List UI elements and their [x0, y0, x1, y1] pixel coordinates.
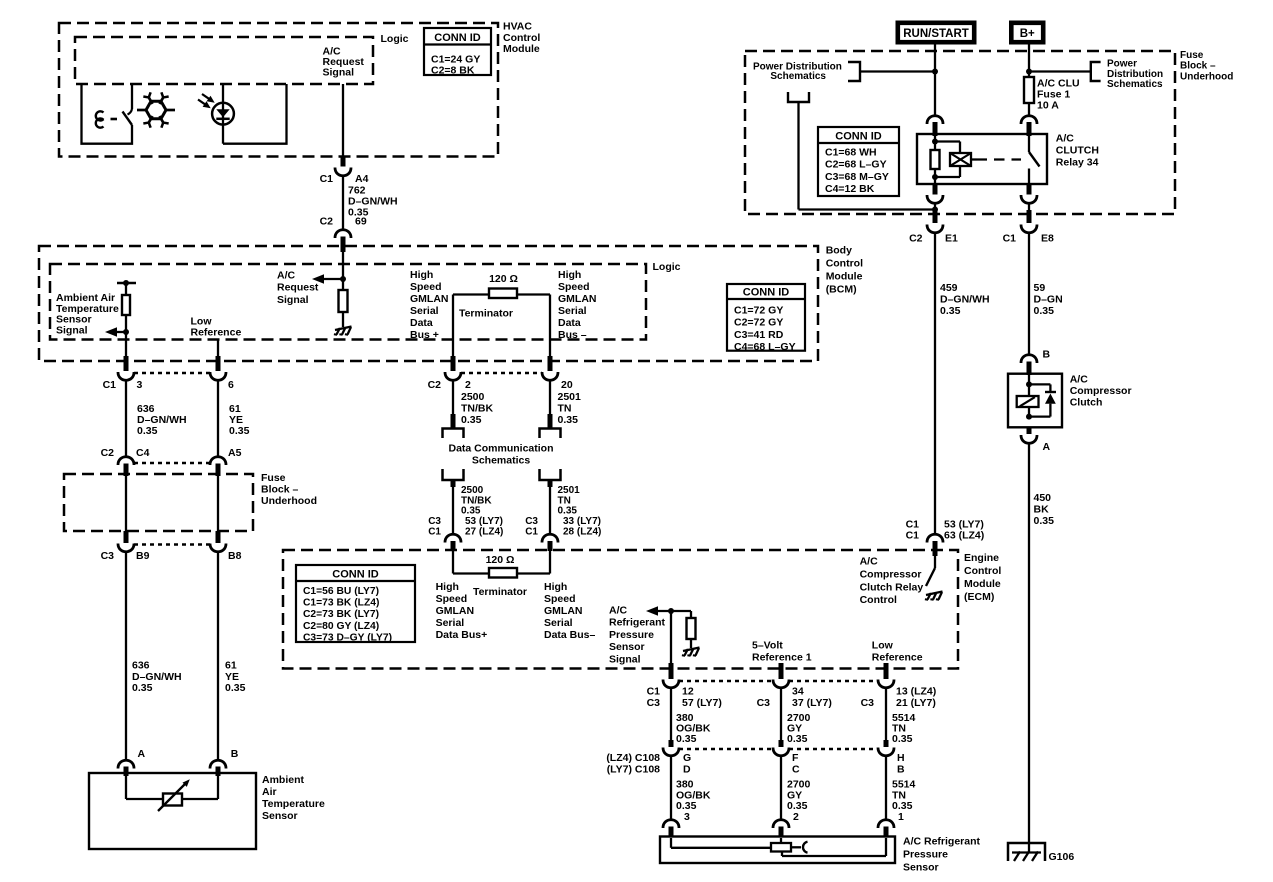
svg-text:C3=73 D–GY (LY7): C3=73 D–GY (LY7) [303, 632, 392, 643]
svg-text:C2=8 BK: C2=8 BK [431, 65, 475, 77]
svg-text:Control: Control [503, 32, 540, 44]
svg-text:2500: 2500 [461, 391, 485, 403]
svg-text:A/C: A/C [1056, 133, 1075, 145]
svg-text:59: 59 [1034, 282, 1046, 294]
svg-text:YE: YE [225, 671, 239, 683]
svg-text:GMLAN: GMLAN [558, 293, 597, 305]
svg-text:C3=68 M–GY: C3=68 M–GY [825, 171, 889, 183]
svg-text:GMLAN: GMLAN [410, 293, 449, 305]
svg-text:Block –: Block – [1180, 61, 1216, 72]
svg-text:21 (LY7): 21 (LY7) [896, 697, 936, 709]
svg-text:C3: C3 [647, 697, 661, 709]
svg-text:C2: C2 [909, 233, 923, 245]
svg-text:A/C: A/C [277, 270, 296, 282]
svg-text:Schematics: Schematics [1107, 79, 1163, 90]
svg-text:B: B [1043, 349, 1051, 361]
svg-text:Compressor: Compressor [860, 568, 922, 580]
svg-text:0.35: 0.35 [137, 425, 158, 437]
svg-text:57 (LY7): 57 (LY7) [682, 697, 722, 709]
svg-text:Speed: Speed [544, 593, 576, 605]
svg-text:HVAC: HVAC [503, 21, 532, 33]
svg-text:Ambient: Ambient [262, 774, 305, 786]
svg-text:A/C: A/C [1070, 374, 1089, 386]
svg-text:61: 61 [225, 660, 237, 672]
svg-text:13 (LZ4): 13 (LZ4) [896, 686, 936, 698]
svg-text:C4: C4 [136, 447, 150, 459]
svg-text:12: 12 [682, 686, 694, 698]
svg-text:Underhood: Underhood [261, 495, 317, 507]
svg-text:C3=41 RD: C3=41 RD [734, 329, 784, 341]
svg-text:0.35: 0.35 [461, 414, 482, 426]
svg-text:Temperature: Temperature [262, 798, 325, 810]
svg-text:TN/BK: TN/BK [461, 495, 492, 506]
svg-text:BK: BK [1034, 504, 1050, 516]
svg-text:D: D [683, 764, 691, 776]
svg-text:Data Bus–: Data Bus– [544, 629, 596, 641]
svg-text:Compressor: Compressor [1070, 385, 1132, 397]
svg-text:Clutch Relay: Clutch Relay [860, 581, 924, 593]
svg-text:Data: Data [410, 317, 433, 329]
svg-text:E8: E8 [1041, 233, 1054, 245]
svg-text:Bus +: Bus + [410, 329, 439, 341]
svg-text:C1=68 WH: C1=68 WH [825, 147, 877, 159]
svg-text:TN/BK: TN/BK [461, 403, 493, 415]
svg-text:0.35: 0.35 [225, 682, 246, 694]
svg-text:RUN/START: RUN/START [903, 28, 969, 40]
svg-text:B: B [231, 748, 239, 760]
svg-text:120 Ω: 120 Ω [489, 273, 518, 285]
svg-text:Sensor: Sensor [903, 862, 939, 874]
svg-text:0.35: 0.35 [940, 305, 961, 317]
svg-text:C3: C3 [757, 697, 771, 709]
svg-text:2500: 2500 [461, 485, 484, 496]
svg-text:(ECM): (ECM) [964, 591, 994, 603]
svg-text:(LY7) C108: (LY7) C108 [607, 764, 660, 776]
svg-text:69: 69 [355, 216, 367, 228]
svg-text:Sensor: Sensor [262, 810, 298, 822]
svg-text:CONN ID: CONN ID [743, 287, 790, 299]
svg-text:C3: C3 [101, 550, 115, 562]
svg-text:Data Bus+: Data Bus+ [436, 629, 488, 641]
svg-text:C3: C3 [861, 697, 875, 709]
svg-text:63 (LZ4): 63 (LZ4) [944, 530, 984, 542]
svg-text:C1: C1 [906, 530, 920, 542]
svg-text:0.35: 0.35 [787, 733, 808, 745]
svg-text:D–GN/WH: D–GN/WH [940, 294, 990, 306]
svg-text:Relay 34: Relay 34 [1056, 157, 1099, 169]
svg-text:Underhood: Underhood [1180, 71, 1233, 82]
svg-text:C1: C1 [320, 173, 334, 185]
svg-text:Fuse: Fuse [261, 472, 286, 484]
svg-text:Schematics: Schematics [472, 454, 531, 466]
svg-text:Speed: Speed [436, 593, 468, 605]
svg-text:Sensor: Sensor [609, 641, 645, 653]
svg-text:A5: A5 [228, 447, 242, 459]
svg-text:Clutch: Clutch [1070, 397, 1103, 409]
svg-text:C2=80 GY (LZ4): C2=80 GY (LZ4) [303, 621, 379, 632]
svg-text:A/C: A/C [860, 556, 879, 568]
svg-text:Terminator: Terminator [473, 586, 527, 598]
svg-text:Serial: Serial [436, 617, 465, 629]
svg-text:27 (LZ4): 27 (LZ4) [465, 526, 503, 537]
svg-text:Logic: Logic [653, 261, 681, 273]
svg-text:Bus –: Bus – [558, 329, 587, 341]
svg-text:Control: Control [964, 565, 1001, 577]
svg-text:459: 459 [940, 282, 958, 294]
svg-text:A: A [138, 748, 146, 760]
svg-text:High: High [410, 269, 433, 281]
svg-text:450: 450 [1034, 492, 1052, 504]
svg-text:C: C [792, 764, 800, 776]
svg-text:Module: Module [826, 271, 863, 283]
svg-text:Speed: Speed [558, 281, 590, 293]
svg-text:Terminator: Terminator [459, 308, 513, 320]
svg-text:Engine: Engine [964, 552, 999, 564]
svg-text:Pressure: Pressure [609, 629, 654, 641]
svg-text:Logic: Logic [381, 33, 409, 45]
svg-text:0.35: 0.35 [1034, 515, 1055, 527]
svg-text:Control: Control [860, 594, 897, 606]
svg-text:Module: Module [503, 43, 540, 55]
svg-text:Fuse: Fuse [1180, 50, 1204, 61]
svg-text:0.35: 0.35 [132, 682, 153, 694]
svg-text:C2: C2 [101, 447, 115, 459]
svg-text:Signal: Signal [56, 324, 88, 336]
svg-text:120 Ω: 120 Ω [486, 554, 515, 566]
svg-text:TN: TN [558, 495, 571, 506]
svg-text:Body: Body [826, 245, 852, 257]
svg-text:E1: E1 [945, 233, 958, 245]
svg-text:D–GN/WH: D–GN/WH [132, 671, 182, 683]
svg-text:1: 1 [898, 811, 904, 823]
svg-text:B8: B8 [228, 550, 242, 562]
svg-text:34: 34 [792, 686, 804, 698]
svg-text:CONN ID: CONN ID [835, 131, 882, 143]
svg-text:Air: Air [262, 786, 277, 798]
svg-text:C4=12 BK: C4=12 BK [825, 183, 875, 195]
svg-text:(LZ4) C108: (LZ4) C108 [606, 752, 660, 764]
svg-text:C1: C1 [428, 526, 441, 537]
svg-text:B9: B9 [136, 550, 150, 562]
svg-text:CONN ID: CONN ID [332, 569, 379, 581]
svg-text:GMLAN: GMLAN [544, 605, 583, 617]
svg-text:C2: C2 [428, 379, 442, 391]
svg-text:A: A [1043, 441, 1051, 453]
svg-text:A/C: A/C [609, 605, 628, 617]
svg-text:High: High [436, 581, 459, 593]
svg-text:Request: Request [277, 282, 319, 294]
svg-text:0.35: 0.35 [1034, 305, 1055, 317]
svg-text:Signal: Signal [323, 67, 355, 79]
svg-text:G106: G106 [1049, 851, 1075, 863]
svg-text:High: High [558, 269, 581, 281]
svg-text:A/C Refrigerant: A/C Refrigerant [903, 836, 981, 848]
svg-text:CLUTCH: CLUTCH [1056, 145, 1099, 157]
svg-text:Signal: Signal [277, 294, 309, 306]
svg-text:Block –: Block – [261, 484, 299, 496]
svg-text:C1: C1 [525, 526, 538, 537]
svg-text:Pressure: Pressure [903, 849, 948, 861]
svg-text:CONN ID: CONN ID [434, 32, 481, 44]
svg-text:10 A: 10 A [1037, 100, 1059, 112]
svg-text:C1=56 BU (LY7): C1=56 BU (LY7) [303, 586, 379, 597]
svg-text:2501: 2501 [558, 391, 582, 403]
svg-text:Signal: Signal [609, 653, 641, 665]
svg-text:37 (LY7): 37 (LY7) [792, 697, 832, 709]
svg-text:G: G [683, 752, 691, 764]
svg-text:A4: A4 [355, 173, 369, 185]
svg-text:D–GN: D–GN [1034, 294, 1063, 306]
svg-text:C4=68 L–GY: C4=68 L–GY [734, 341, 796, 353]
svg-text:Refrigerant: Refrigerant [609, 617, 666, 629]
svg-text:5–Volt: 5–Volt [752, 640, 783, 652]
svg-text:Serial: Serial [558, 305, 587, 317]
svg-text:0.35: 0.35 [892, 733, 913, 745]
svg-text:B: B [897, 764, 905, 776]
svg-text:F: F [792, 752, 799, 764]
svg-text:TN: TN [558, 403, 572, 415]
svg-text:GMLAN: GMLAN [436, 605, 475, 617]
svg-text:Reference 1: Reference 1 [752, 652, 812, 664]
svg-text:Module: Module [964, 578, 1001, 590]
svg-text:C1: C1 [103, 379, 117, 391]
svg-text:C2: C2 [320, 216, 334, 228]
svg-text:B+: B+ [1020, 28, 1035, 40]
svg-text:C1=72 GY: C1=72 GY [734, 305, 783, 317]
svg-text:2501: 2501 [558, 485, 581, 496]
svg-text:3: 3 [684, 811, 690, 823]
svg-text:Serial: Serial [410, 305, 439, 317]
svg-text:C1=73 BK (LZ4): C1=73 BK (LZ4) [303, 598, 379, 609]
svg-text:2: 2 [465, 379, 471, 391]
svg-text:0.35: 0.35 [676, 733, 697, 745]
svg-text:0.35: 0.35 [558, 414, 579, 426]
svg-text:C2=73 BK (LY7): C2=73 BK (LY7) [303, 609, 379, 620]
svg-text:High: High [544, 581, 567, 593]
svg-text:Reference: Reference [191, 326, 242, 338]
svg-text:C1: C1 [1003, 233, 1017, 245]
svg-text:Serial: Serial [544, 617, 573, 629]
svg-text:C2=68 L–GY: C2=68 L–GY [825, 159, 887, 171]
svg-text:C1: C1 [647, 686, 661, 698]
svg-text:(BCM): (BCM) [826, 284, 857, 296]
svg-text:Reference: Reference [872, 652, 923, 664]
svg-text:H: H [897, 752, 905, 764]
svg-text:0.35: 0.35 [229, 425, 250, 437]
svg-text:3: 3 [137, 379, 143, 391]
svg-text:28 (LZ4): 28 (LZ4) [563, 526, 601, 537]
svg-text:Speed: Speed [410, 281, 442, 293]
svg-text:Control: Control [826, 258, 863, 270]
svg-text:636: 636 [132, 660, 150, 672]
svg-text:20: 20 [561, 379, 573, 391]
svg-text:2: 2 [793, 811, 799, 823]
svg-text:6: 6 [228, 379, 234, 391]
svg-text:C2=72 GY: C2=72 GY [734, 317, 783, 329]
svg-text:Data: Data [558, 317, 581, 329]
svg-text:Schematics: Schematics [770, 71, 826, 82]
svg-text:Data Communication: Data Communication [448, 443, 553, 455]
svg-text:Low: Low [872, 640, 894, 652]
